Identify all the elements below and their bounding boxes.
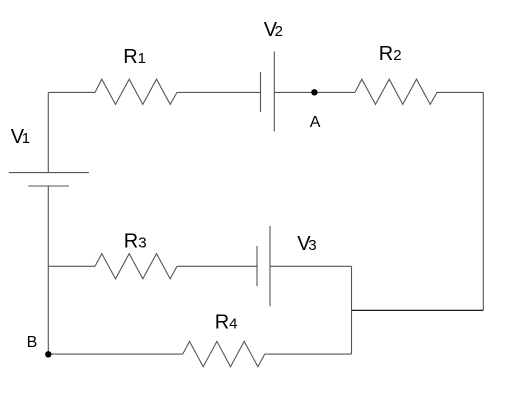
battery V2 short plate bbox=[260, 72, 262, 112]
wire: mid vertical wire from middle row down to bottom row bbox=[351, 266, 353, 354]
wire: bottom row from node B to R4 bbox=[48, 353, 182, 355]
wire: top wire from top-left corner to R1 bbox=[48, 91, 95, 93]
svg-text:R2: R2 bbox=[379, 43, 402, 65]
wire: left vertical wire from top-left corner down to battery V1 bbox=[47, 92, 49, 172]
resistor R1 bbox=[95, 79, 177, 104]
battery V1 long plate bbox=[9, 172, 89, 174]
resistor R2 bbox=[355, 79, 437, 104]
resistor R4 bbox=[183, 341, 265, 366]
svg-text:R1: R1 bbox=[123, 46, 146, 68]
wire: left vertical wire from battery V1 down to node B bbox=[47, 186, 49, 354]
node A bbox=[311, 89, 317, 95]
svg-text:R4: R4 bbox=[215, 311, 238, 333]
wire: middle row from battery V3 to mid vertical wire bbox=[270, 265, 352, 267]
svg-text:V1: V1 bbox=[11, 126, 30, 148]
wire: top wire from battery V2 through node A to R2 bbox=[274, 91, 355, 93]
battery V3 short plate bbox=[256, 246, 258, 286]
battery V1 short plate bbox=[28, 185, 69, 187]
wire: top wire from R1 to battery V2 bbox=[177, 91, 261, 93]
svg-text:V2: V2 bbox=[264, 19, 283, 41]
svg-text:B: B bbox=[27, 334, 38, 351]
wire: middle row from R3 to battery V3 bbox=[177, 265, 257, 267]
wire: bottom row from R4 to mid vertical wire bbox=[265, 353, 352, 355]
wire: right vertical wire from top-right corner down to jumper bbox=[482, 92, 484, 310]
wire: jumper from mid vertical wire to right vertical wire bbox=[352, 309, 484, 311]
wire: top wire from R2 to top-right corner bbox=[437, 91, 483, 93]
node B bbox=[45, 351, 51, 357]
svg-text:R3: R3 bbox=[124, 230, 147, 252]
wire: middle row from left wire to R3 bbox=[48, 265, 95, 267]
battery V2 long plate bbox=[273, 52, 275, 132]
svg-text:V3: V3 bbox=[297, 233, 316, 255]
resistor R3 bbox=[95, 254, 177, 279]
svg-text:A: A bbox=[310, 114, 321, 131]
battery V3 long plate bbox=[269, 226, 271, 306]
